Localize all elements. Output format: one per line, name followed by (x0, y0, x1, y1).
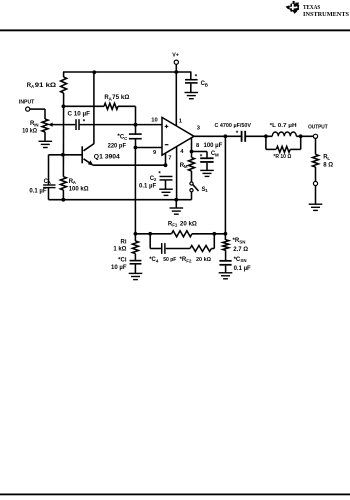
svg-text:*: * (83, 119, 86, 126)
svg-text:0.1 µF: 0.1 µF (139, 184, 156, 190)
svg-text:TEXAS: TEXAS (303, 5, 321, 11)
svg-text:F1: F1 (172, 223, 178, 228)
svg-text:*: * (200, 154, 203, 161)
svg-text:50 pF: 50 pF (163, 257, 177, 263)
svg-text:C 4700 µF/50V: C 4700 µF/50V (215, 123, 252, 129)
svg-text:*R 10 Ω: *R 10 Ω (273, 154, 291, 160)
svg-text:INSTRUMENTS: INSTRUMENTS (303, 12, 350, 18)
svg-text:V+: V+ (172, 53, 179, 59)
svg-text:C 10 µF: C 10 µF (68, 111, 91, 117)
svg-text:91 kΩ: 91 kΩ (35, 83, 57, 89)
svg-text:10: 10 (151, 117, 157, 123)
svg-text:*L 0.7 µH: *L 0.7 µH (270, 123, 297, 129)
svg-text:M: M (215, 152, 219, 157)
svg-text:SN: SN (240, 258, 246, 263)
svg-text:10 µF: 10 µF (111, 265, 127, 271)
svg-text:L: L (327, 156, 330, 161)
svg-text:INPUT: INPUT (19, 100, 35, 106)
svg-text:20 kΩ: 20 kΩ (180, 221, 197, 227)
svg-text:IN: IN (34, 122, 38, 127)
svg-text:75 kΩ: 75 kΩ (112, 95, 129, 101)
svg-text:2.7 Ω: 2.7 Ω (233, 247, 248, 253)
svg-text:220 pF: 220 pF (108, 143, 127, 149)
svg-text:B: B (205, 83, 208, 88)
svg-text:Q1 3904: Q1 3904 (94, 154, 121, 160)
svg-text:100 µF: 100 µF (204, 143, 223, 149)
svg-text:0.1 µF: 0.1 µF (29, 188, 46, 194)
svg-text:*: * (195, 74, 198, 81)
svg-text:20 kΩ: 20 kΩ (196, 257, 211, 263)
svg-text:0.1 µF: 0.1 µF (234, 266, 251, 272)
svg-text:10 kΩ: 10 kΩ (22, 128, 37, 134)
svg-text:Ri: Ri (121, 239, 127, 245)
svg-text:1 kΩ: 1 kΩ (113, 247, 126, 253)
svg-text:F2: F2 (186, 259, 192, 264)
svg-text:M: M (184, 164, 188, 169)
svg-text:*: * (158, 170, 161, 177)
svg-text:*Ci: *Ci (118, 257, 127, 263)
svg-text:100 kΩ: 100 kΩ (69, 186, 89, 192)
svg-text:SN: SN (239, 240, 245, 245)
svg-text:7: 7 (168, 156, 171, 162)
svg-text:*: * (236, 130, 239, 137)
svg-text:8 Ω: 8 Ω (323, 162, 333, 168)
svg-text:OUTPUT: OUTPUT (308, 125, 328, 131)
